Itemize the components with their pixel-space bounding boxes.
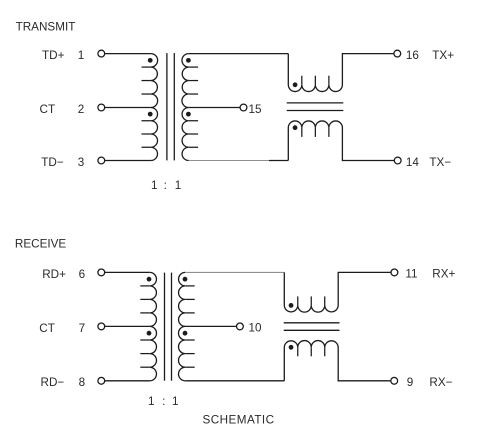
- transformer T1 primary winding lower (pins 2-3): [151, 108, 158, 161]
- svg-text::: :: [162, 395, 165, 408]
- wire pin 3 to T1 primary: [105, 160, 151, 162]
- svg-text:RD+: RD+: [42, 268, 66, 281]
- transformer T2 core line left: [164, 273, 166, 381]
- svg-text:1: 1: [172, 395, 179, 408]
- pin 16 terminal circle: [394, 50, 401, 57]
- svg-text:14: 14: [406, 156, 420, 169]
- transformer T1 secondary winding upper (pin 16 side): [182, 54, 189, 108]
- T2 secondary winding turn tick: [185, 285, 194, 287]
- T1 primary phasing dot (pin 2 end): [148, 112, 153, 117]
- choke L1 bottom winding turn tick: [328, 128, 330, 137]
- T2 primary winding turn tick: [140, 366, 149, 368]
- T2 primary phasing dot (pin 7 end): [147, 331, 152, 336]
- T2 primary winding turn tick: [140, 353, 149, 355]
- wire T1 secondary top to choke L1: [189, 53, 289, 55]
- pin 15 terminal circle: [240, 104, 247, 111]
- svg-text::: :: [164, 179, 167, 192]
- svg-text:TX+: TX+: [432, 49, 454, 62]
- svg-text:RD−: RD−: [41, 376, 65, 389]
- choke L1 top winding with leads: [288, 54, 394, 92]
- choke L1 bottom winding with leads: [288, 121, 394, 161]
- pin 8 terminal circle: [98, 377, 105, 384]
- T1 secondary winding turn tick: [189, 146, 198, 148]
- pin 9 terminal circle: [391, 377, 398, 384]
- T1 primary winding turn tick: [142, 66, 151, 68]
- T2 primary winding turn tick: [140, 339, 149, 341]
- svg-text:11: 11: [405, 268, 417, 281]
- choke L2 top winding turn tick: [324, 296, 326, 305]
- svg-text:RX−: RX−: [429, 376, 452, 389]
- T1 primary winding turn tick: [142, 120, 151, 122]
- pin 10 terminal circle: [237, 323, 244, 330]
- svg-text:16: 16: [406, 49, 419, 62]
- wire pin 7 to T2 primary: [105, 325, 150, 327]
- T2 secondary phasing dot (top): [183, 277, 188, 282]
- T1 secondary winding turn tick: [189, 80, 198, 82]
- choke L1 bottom phasing dot: [293, 125, 298, 130]
- T2 secondary winding turn tick: [185, 312, 194, 314]
- pin 7 terminal circle: [98, 323, 105, 330]
- choke L2 bottom phasing dot: [289, 345, 294, 350]
- T2 primary phasing dot (pin 6 end): [147, 277, 152, 282]
- svg-text:2: 2: [78, 103, 85, 116]
- svg-text:TX−: TX−: [429, 156, 451, 169]
- transformer T1 secondary winding lower (pin 14 side): [182, 108, 189, 161]
- wire T1 secondary bottom to choke L1 (right part): [269, 160, 288, 162]
- choke L2 bottom winding turn tick: [310, 347, 312, 356]
- choke L1 top winding turn tick: [328, 76, 330, 85]
- svg-text:7: 7: [79, 322, 86, 335]
- T1 secondary phasing dot (center): [186, 112, 191, 117]
- choke L1 core line upper: [287, 102, 344, 104]
- T1 secondary winding turn tick: [189, 133, 198, 135]
- svg-text:1: 1: [148, 395, 155, 408]
- T1 primary winding turn tick: [142, 93, 151, 95]
- transformer T2 secondary winding upper (pin 11 side): [179, 272, 186, 326]
- choke L1 top winding turn tick: [301, 76, 303, 85]
- T1 primary phasing dot (pin 1 end): [148, 58, 153, 63]
- choke L2 top phasing dot: [289, 303, 294, 308]
- choke L1 bottom winding turn tick: [314, 128, 316, 137]
- transformer T1 core line right: [173, 53, 175, 160]
- transformer T1 core line left: [166, 53, 168, 160]
- T1 primary winding turn tick: [142, 146, 151, 148]
- T2 primary winding turn tick: [140, 298, 149, 300]
- pin 2 terminal circle: [98, 104, 105, 111]
- choke L2 bottom winding turn tick: [297, 347, 299, 356]
- T2 secondary winding turn tick: [185, 353, 194, 355]
- svg-text:3: 3: [78, 156, 85, 169]
- wire pin 8 to T2 primary: [105, 380, 150, 382]
- pin 1 terminal circle: [98, 50, 105, 57]
- wire T2 secondary top to choke L2: [185, 271, 284, 273]
- wire T1 secondary bottom to choke L1 (left part): [189, 160, 269, 162]
- svg-text:TRANSMIT: TRANSMIT: [16, 21, 76, 34]
- transformer T2 core line right: [171, 273, 173, 381]
- choke L1 top winding turn tick: [314, 76, 316, 85]
- wire pin 6 to T2 primary: [105, 271, 150, 273]
- wire pin 2 to T1 primary: [105, 107, 151, 109]
- svg-text:10: 10: [249, 322, 263, 335]
- choke L2 top winding with leads: [284, 272, 391, 312]
- transformer T2 primary winding lower (pins 7-8): [150, 326, 157, 380]
- choke L2 bottom winding turn tick: [324, 347, 326, 356]
- T2 secondary winding turn tick: [185, 298, 194, 300]
- T2 secondary winding turn tick: [185, 366, 194, 368]
- choke L2 core line upper: [284, 322, 340, 324]
- choke L1 bottom winding turn tick: [301, 128, 303, 137]
- choke L2 bottom winding with leads: [284, 341, 391, 381]
- pin 3 terminal circle: [98, 157, 105, 164]
- svg-text:RX+: RX+: [432, 268, 455, 281]
- wire T2 center tap to pin 10: [185, 325, 236, 327]
- T1 secondary phasing dot (top): [186, 58, 191, 63]
- svg-text:6: 6: [79, 268, 86, 281]
- wire T2 secondary bottom to choke L2: [185, 380, 284, 382]
- choke L2 core line lower: [284, 329, 340, 331]
- svg-text:1: 1: [175, 179, 182, 192]
- transformer T2 secondary winding lower (pin 9 side): [179, 326, 186, 380]
- svg-text:SCHEMATIC: SCHEMATIC: [203, 413, 275, 426]
- T1 secondary winding turn tick: [189, 120, 198, 122]
- wire T1 center tap to pin 15: [189, 107, 240, 109]
- svg-text:CT: CT: [40, 103, 56, 116]
- T2 primary winding turn tick: [140, 312, 149, 314]
- T2 primary winding turn tick: [140, 285, 149, 287]
- pin 14 terminal circle: [394, 157, 401, 164]
- svg-text:9: 9: [407, 376, 414, 389]
- T2 secondary phasing dot (center): [183, 331, 188, 336]
- wire pin 1 to T1 primary: [105, 53, 151, 55]
- svg-text:1: 1: [151, 179, 158, 192]
- T1 secondary winding turn tick: [189, 66, 198, 68]
- T1 primary winding turn tick: [142, 133, 151, 135]
- svg-text:RECEIVE: RECEIVE: [15, 237, 67, 250]
- transformer T2 primary winding upper (pins 6-7): [150, 272, 157, 326]
- svg-text:TD+: TD+: [42, 49, 65, 62]
- T1 primary winding turn tick: [142, 80, 151, 82]
- svg-text:8: 8: [79, 376, 86, 389]
- pin 11 terminal circle: [391, 269, 398, 276]
- choke L2 top winding turn tick: [297, 296, 299, 305]
- svg-text:TD−: TD−: [41, 156, 64, 169]
- T2 secondary winding turn tick: [185, 339, 194, 341]
- T1 secondary winding turn tick: [189, 93, 198, 95]
- choke L1 top phasing dot: [293, 82, 298, 87]
- svg-text:CT: CT: [39, 322, 55, 335]
- choke L1 core line lower: [287, 110, 344, 112]
- svg-text:15: 15: [249, 103, 263, 116]
- svg-text:1: 1: [78, 49, 85, 62]
- transformer T1 primary winding upper (pins 1-2): [151, 54, 158, 108]
- choke L2 top winding turn tick: [310, 296, 312, 305]
- pin 6 terminal circle: [98, 269, 105, 276]
